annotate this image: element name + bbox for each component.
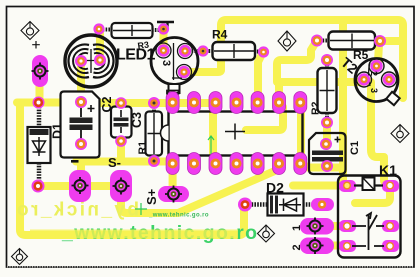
svg-text:_www.tehnic.go.ro: _www.tehnic.go.ro [148,213,209,219]
pad D2 left [238,198,252,212]
IC pin1 marker [167,91,179,95]
plus mark top-left [32,41,40,49]
fiducial bottom-middle [258,225,275,242]
pad relay mid left [339,220,356,232]
capacitor C2 body [111,105,132,140]
target pad S- [113,178,130,195]
wire IC pin7 bottom to relay area y=167 [302,164,340,168]
pad 1 connector [300,218,334,235]
diode D1 body [28,104,51,185]
svg-text:1: 1 [291,225,303,231]
pad relay coil right [382,180,399,192]
transistor T2 outline [355,59,400,106]
wire S- down right diagonal to IC pin6 bottom [121,170,277,213]
relay coil symbol [354,178,383,191]
wire left horizontal to D1 top [17,99,62,107]
pad R3 right [158,23,169,34]
target pad top-left [32,63,49,80]
svg-text:S+: S+ [144,188,159,205]
wire IC interior elbow pin6 [246,107,283,130]
pad T1 three [157,44,191,78]
svg-text:2: 2 [291,244,303,250]
wire bus y=103 C4 to IC pin3 [97,99,215,107]
target pad minus [72,177,89,194]
target pad S+ [165,186,182,203]
pad relay coil left [339,180,356,192]
pad R2 top [321,54,333,66]
pad relay bottom left [339,240,356,252]
wire R5 right pad to right rail [384,37,400,45]
pad C1 bottom [321,160,333,172]
svg-text:D1: D1 [51,123,65,139]
pad hole top-left connector [32,55,48,87]
relay switch symbol [352,213,384,250]
wire R2 bottom to C1 top [323,122,331,146]
fiducial top-left [21,22,39,40]
pad R3 left [93,23,104,34]
wire C4 bottom down to minus pad [77,144,85,183]
pad C2 top [115,97,127,109]
resistor R4 body [203,42,263,60]
wire S+ vertical from IC pin1 [169,164,177,193]
pad C4 top [75,96,87,108]
resistor R5 body [317,32,380,50]
pad T2 three [358,60,395,86]
pad relay mid right [382,220,399,232]
target pad 2 [307,237,324,254]
svg-text:C3: C3 [130,112,144,128]
pad S+ connector [158,186,189,202]
jumper T1 collector to R4 [186,49,202,53]
wire IC pin7 top-bottom interior [297,103,305,163]
pad R2 bottom [321,117,333,129]
label minus [71,160,79,163]
frame bottom dotted texture [7,266,413,268]
wire minus row y=186 [38,182,120,190]
transistor T1 outline [151,38,198,94]
resistor R2 body [318,62,337,121]
wire top rail with corners [221,20,403,98]
pad relay bottom right [382,240,399,252]
pad D1 top [33,97,45,109]
svg-text:R1: R1 [137,141,149,155]
wire LED right pad up to R3 left pad [96,30,104,59]
wire y=161.5 row to IC pin1 [76,158,170,166]
svg-text:3: 3 [160,60,172,66]
pad IC hole highlights [171,101,303,166]
wire long vertical x=343 top rail to relay coil left [339,21,347,184]
svg-text:K1: K1 [379,162,397,178]
fiducial mid-top [278,31,296,51]
pad D2 right oblong [311,198,334,211]
svg-text:C2: C2 [100,96,114,112]
wire R5 left elbow to y=60 rail [277,42,316,82]
wire R5 right to T2 top pad [378,44,379,62]
pad R5 right [374,35,386,47]
svg-text:R3: R3 [137,39,150,51]
watermark small green plus [135,203,147,215]
wire R3 right pad down to T1 pad [160,30,168,50]
pad C1 top [320,138,332,150]
diode D2 body [246,194,323,216]
target pad 1 [307,218,324,235]
capacitor C4 body [61,92,100,158]
pad R4 right [258,46,269,57]
IC U1 body [161,112,303,156]
pad grid IC top row [166,92,307,114]
svg-text:C1: C1 [349,141,361,155]
wire IC pin3 top-bottom interior [209,103,217,163]
resistor R3 body [100,23,163,38]
wire left vertical + bottom horizontal + rise to D2 anode [20,103,244,236]
wire LED left pad down to C4 plus pad [77,61,85,94]
svg-text:by_nick_ro: by_nick_ro [15,200,139,221]
wire vertical x=371 down from y=82 to relay coil right [371,82,384,181]
watermark green mark inside IC [208,136,214,156]
fiducial bottom-left [12,249,28,265]
wire C2 bottom jog [117,141,125,158]
pad grid IC bottom row [166,153,307,175]
capacitor C1 body [309,133,346,174]
svg-text:S-: S- [108,155,121,170]
svg-text:D2: D2 [266,180,284,196]
svg-text:R2: R2 [310,101,322,115]
LED1 outline and arcs [65,35,117,87]
pad LED1 two [75,54,106,67]
pad D1 bottom [32,180,45,193]
svg-text:2: 2 [369,71,379,76]
wire pad1 to relay mid-left [320,222,346,230]
capacitor C3 body (tall box) [146,104,163,161]
pad C2 bottom [115,135,127,147]
pad 2 connector [300,238,334,255]
pad C3 top [148,97,160,109]
pad S- connector [110,170,132,202]
svg-text:R4: R4 [212,28,228,42]
wire R4 right pad down to IC pin5 [258,54,262,101]
pad R5 left [311,35,323,47]
wire pad(40,71) to D1 top pad [36,71,44,100]
wire overlay dimming watermark [30,230,238,239]
pad C3 bottom [148,155,160,167]
wire stub to T1 emitter pad [186,70,221,72]
svg-text:3: 3 [369,88,379,93]
watermark mirrored by_nick_ro [15,200,139,221]
pad minus connector [69,170,91,202]
pad C4 bottom [75,138,87,150]
pad IC holes orange [168,98,306,169]
wire IC pin6 up [275,83,283,101]
wire relay interior U from coil right pad [355,189,390,203]
fiducial right [391,125,409,143]
relay K1 body [338,176,401,258]
wire relay coil left horizontal y=186 [293,182,345,190]
jumper T near R3 right pad [157,22,174,30]
wire pad2 to relay bottom-left [320,242,346,250]
wire y=82 to T2 left pad [279,78,362,86]
pad R4 left [197,45,208,56]
